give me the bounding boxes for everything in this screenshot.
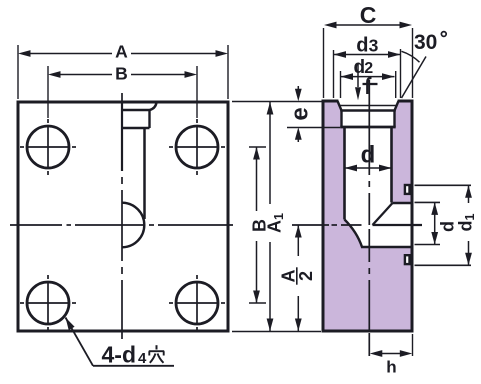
- svg-text:3: 3: [369, 36, 379, 56]
- svg-text:d: d: [438, 221, 458, 232]
- svg-text:h: h: [386, 358, 396, 377]
- svg-text:d: d: [361, 142, 376, 169]
- svg-text:4: 4: [138, 350, 147, 367]
- svg-text:d: d: [356, 35, 368, 57]
- svg-text:4-d: 4-d: [102, 342, 137, 368]
- svg-text:B: B: [115, 64, 128, 84]
- svg-text:2: 2: [364, 60, 373, 77]
- svg-text:30: 30: [414, 31, 437, 54]
- svg-text:e: e: [287, 107, 314, 120]
- svg-text:C: C: [360, 2, 377, 28]
- svg-text:A: A: [115, 42, 128, 62]
- svg-text:2: 2: [296, 271, 316, 281]
